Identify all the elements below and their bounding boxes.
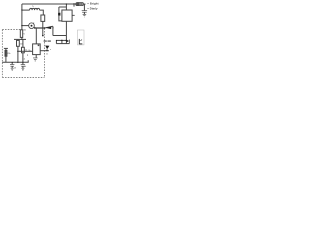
wire Q1 emitter down — [35, 55, 37, 58]
node dot C1 on rail — [12, 62, 13, 63]
wire h-line mid right — [53, 35, 67, 37]
node at pot stub — [46, 50, 47, 51]
node terminal dot — [42, 35, 44, 37]
node dot — [21, 39, 22, 40]
wire after lamp — [84, 3, 86, 5]
svg-text:u: u — [50, 49, 51, 51]
diode D2 — [67, 40, 70, 43]
wire coil to R1 — [40, 10, 44, 15]
node dot — [66, 3, 67, 4]
wire second rail — [22, 9, 30, 11]
node junction at (22,10) — [21, 9, 22, 10]
tick right of R2 — [72, 14, 75, 16]
svg-text:13: 13 — [14, 67, 17, 69]
wire R2 down — [65, 21, 67, 43]
svg-text:1n: 1n — [46, 54, 49, 56]
node dot — [44, 27, 45, 28]
ground C2 — [21, 68, 24, 71]
wire left vertical — [21, 4, 23, 30]
svg-text:2A: 2A — [23, 29, 26, 32]
resistor R3 — [17, 40, 20, 46]
svg-text:= Bright: = Bright — [87, 2, 98, 6]
module box (light) — [77, 30, 84, 45]
transistor T2 glyph inside — [78, 39, 80, 44]
capacitor C1 to ground — [11, 62, 13, 64]
wire stub top to R2 — [65, 4, 67, 10]
svg-text:b: b — [33, 23, 34, 25]
label inside Q1 top-right — [38, 45, 40, 47]
node dots — [61, 40, 63, 42]
wire switch throw down — [52, 26, 54, 35]
wire below zener D1 — [59, 16, 62, 21]
svg-text:14: 14 — [23, 58, 26, 60]
node dot — [34, 27, 36, 29]
ground Q1 — [33, 58, 38, 61]
svg-text:12k: 12k — [20, 44, 24, 46]
label bar under switch — [44, 41, 47, 42]
resistor R4 — [22, 47, 25, 53]
wire input branch down — [5, 48, 7, 62]
wire base to Q1 — [18, 50, 33, 52]
lamp pill E1 — [76, 2, 84, 5]
dashed enclosure border — [2, 28, 44, 77]
zener D1 — [58, 13, 60, 16]
node dot R3 branch on rail — [17, 62, 18, 63]
node hinge dot — [53, 27, 54, 28]
node dot base — [17, 51, 18, 52]
capacitor C2 to ground — [22, 62, 24, 64]
inductor L1 — [30, 8, 40, 10]
node dot on rail — [73, 3, 74, 4]
transistor Q1 box — [33, 44, 41, 55]
stub to R3 — [17, 39, 19, 40]
switch S1 blade — [45, 26, 53, 28]
capacitor C4 branch — [83, 4, 85, 10]
resistor R5 — [5, 50, 7, 56]
node dot C2 on rail — [22, 62, 23, 63]
resistor R2 box — [62, 10, 72, 21]
pot wiper flag — [45, 46, 49, 50]
svg-text:1: 1 — [27, 55, 29, 57]
wire Q1 collector right — [40, 50, 49, 52]
node dot left of lamp — [21, 25, 22, 26]
bottom rail — [2, 60, 28, 62]
wire node row y28 — [34, 27, 44, 29]
svg-text:S: S — [23, 34, 25, 36]
svg-text:1k: 1k — [24, 66, 26, 68]
wire v stubs — [55, 40, 57, 43]
resistor R1 — [41, 15, 45, 21]
wire R4 down — [22, 53, 24, 63]
svg-text:L: L — [33, 6, 35, 8]
wire h3 lower row — [56, 43, 69, 45]
wire H mid — [14, 38, 26, 40]
ground for C4 — [83, 14, 87, 17]
terminal bar input branch — [4, 47, 8, 49]
lamp La1 circle with dot — [22, 25, 29, 27]
wire R1 down — [42, 21, 44, 35]
wire down to Q1 — [35, 28, 37, 44]
wire stub below dot — [73, 4, 75, 7]
wire R3 down — [17, 46, 19, 62]
svg-text:15k: 15k — [7, 53, 11, 55]
fuse box F1 on left vertical — [20, 30, 22, 38]
ground C1 — [11, 68, 14, 71]
wire top rail — [22, 3, 76, 5]
wire to R4 — [22, 39, 24, 47]
wire h2 gate row — [56, 39, 66, 41]
svg-text:= Dimly: = Dimly — [87, 6, 98, 10]
zener branch tee — [59, 6, 67, 8]
